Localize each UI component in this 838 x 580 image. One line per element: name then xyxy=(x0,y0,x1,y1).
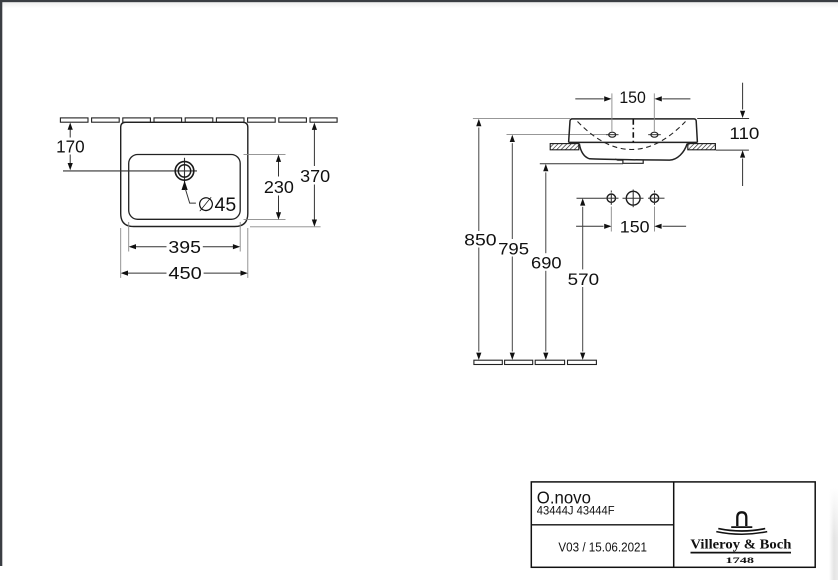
hidden bowl contour (dashed) xyxy=(578,122,686,150)
svg-text:450: 450 xyxy=(168,263,202,283)
leader diameter 45 xyxy=(182,181,188,190)
dimension 450 xyxy=(123,272,246,274)
title block outer frame xyxy=(531,482,815,567)
page top chrome bar xyxy=(0,0,838,2)
svg-text:395: 395 xyxy=(168,237,201,257)
svg-text:Villeroy & Boch: Villeroy & Boch xyxy=(690,537,791,552)
rim top reference line (850 extension) xyxy=(473,118,570,120)
svg-text:∅45: ∅45 xyxy=(198,194,237,216)
left fixing hole xyxy=(607,194,615,202)
svg-text:570: 570 xyxy=(568,270,599,289)
dimension 230 extension lines xyxy=(244,155,286,220)
wall section hatch right xyxy=(688,144,716,150)
logo plinth xyxy=(731,526,752,528)
tap hole centerline horizontal xyxy=(63,170,197,172)
dimension 150 top extension lines xyxy=(612,93,654,131)
svg-text:230: 230 xyxy=(264,177,294,197)
basin inner bowl outline (plan) xyxy=(129,155,241,220)
underside reference line left (690 extension) xyxy=(540,163,623,165)
wall section hatch left xyxy=(550,144,579,150)
svg-text:170: 170 xyxy=(56,136,85,156)
title block horizontal divider xyxy=(531,524,673,526)
dimension 570 xyxy=(582,207,584,352)
dimension 690 xyxy=(545,172,547,351)
underside reference line right (110 extension) xyxy=(716,149,749,151)
right tap hole (oval) xyxy=(651,132,658,137)
dimension 150 bottom xyxy=(576,225,686,227)
rim top extension right (110 extension) xyxy=(697,118,749,120)
rim bottom edge xyxy=(569,141,698,143)
tap hole centerline vertical xyxy=(184,158,186,183)
tap hole axis reference line (795 extension) xyxy=(507,134,607,136)
dimension 230 xyxy=(278,157,280,218)
page right edge shade xyxy=(829,488,838,580)
dimension 395 xyxy=(131,246,239,248)
dimension 370 xyxy=(313,125,315,225)
logo ripple arc 2 xyxy=(716,532,767,535)
logo wordmark underline xyxy=(691,552,792,554)
dimension 150 bottom extension lines xyxy=(611,207,654,232)
floor line (tiled segments) xyxy=(474,360,597,364)
svg-text:370: 370 xyxy=(300,166,330,186)
svg-text:V03 / 15.06.2021: V03 / 15.06.2021 xyxy=(558,540,647,555)
dimension 795 xyxy=(511,143,513,351)
title block vertical divider xyxy=(673,482,675,567)
basin rim outline (front) xyxy=(569,119,698,142)
drain trap cover xyxy=(615,159,643,163)
logo ripple arc 1 xyxy=(718,529,765,531)
svg-text:110: 110 xyxy=(729,124,759,143)
centre line (dashed) xyxy=(632,119,634,142)
dimension 850 xyxy=(478,128,480,352)
svg-text:150: 150 xyxy=(620,218,650,237)
svg-text:150: 150 xyxy=(619,88,646,107)
wall line (plan view, tiled segments) xyxy=(60,118,337,122)
basin outer outline (plan) xyxy=(121,122,248,226)
svg-text:690: 690 xyxy=(531,254,562,273)
dimension 170 xyxy=(69,125,71,169)
dimension 395 extension lines xyxy=(129,222,241,252)
tap hole outer circle xyxy=(175,162,194,181)
dimension 110 xyxy=(742,83,744,186)
dimension 150 top xyxy=(575,98,690,100)
svg-text:1748: 1748 xyxy=(726,556,755,565)
svg-text:850: 850 xyxy=(464,230,497,249)
dimension 370 extension line xyxy=(250,226,321,228)
dimension 450 extension lines xyxy=(121,228,248,278)
centre fixing hole xyxy=(626,191,640,205)
tap hole inner circle xyxy=(178,165,190,177)
basin body underside (front) xyxy=(579,144,687,161)
mounting holes centreline xyxy=(577,197,605,199)
left tap hole (oval) xyxy=(609,132,616,137)
svg-text:43444J 43444F: 43444J 43444F xyxy=(537,503,615,517)
svg-text:795: 795 xyxy=(498,239,529,258)
right fixing hole xyxy=(650,194,658,202)
page left chrome bar xyxy=(0,0,2,566)
logo fountain arch xyxy=(737,512,746,526)
